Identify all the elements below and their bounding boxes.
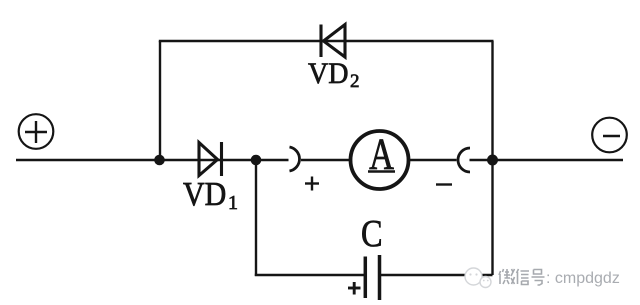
polarity minus at meter output [436, 183, 452, 185]
label VD2 [308, 57, 348, 90]
wire bottom-left vertical branch [255, 160, 257, 276]
diode VD2 [321, 25, 345, 58]
junction node middle [251, 155, 262, 166]
wire main horizontal left segment [16, 159, 289, 161]
diode VD1 [199, 142, 222, 176]
svg-text:VD: VD [183, 174, 226, 212]
wire meter left lead [301, 159, 352, 161]
svg-text:2: 2 [350, 71, 360, 92]
wire meter right lead [408, 159, 457, 161]
label A underline [368, 170, 395, 173]
wire bottom horizontal left segment [255, 274, 364, 276]
terminal minus (negative output) [592, 118, 627, 153]
svg-text:: cmpdgdz: : cmpdgdz [546, 270, 620, 287]
label C [361, 213, 383, 255]
svg-text:1: 1 [228, 192, 238, 214]
connector arc left [290, 147, 300, 171]
terminal plus (positive input) [19, 114, 54, 149]
label VD1 [183, 174, 226, 212]
watermark wechat icon [465, 268, 492, 288]
wire top horizontal [159, 40, 494, 42]
wire left vertical branch [159, 41, 161, 160]
wire right vertical [491, 41, 493, 275]
label A [369, 128, 394, 178]
wire main horizontal right segment [470, 159, 624, 161]
watermark text weixinhao [499, 269, 545, 285]
junction node right [487, 155, 498, 166]
svg-text:C: C [361, 213, 383, 255]
capacitor C plates [365, 255, 379, 300]
polarity plus at meter input [305, 177, 319, 191]
wire bottom horizontal right segment [381, 274, 493, 276]
svg-text:VD: VD [308, 57, 348, 90]
junction node left [154, 155, 165, 166]
polarity plus at capacitor [348, 282, 361, 295]
connector arc right [458, 148, 470, 172]
ammeter [351, 131, 409, 189]
